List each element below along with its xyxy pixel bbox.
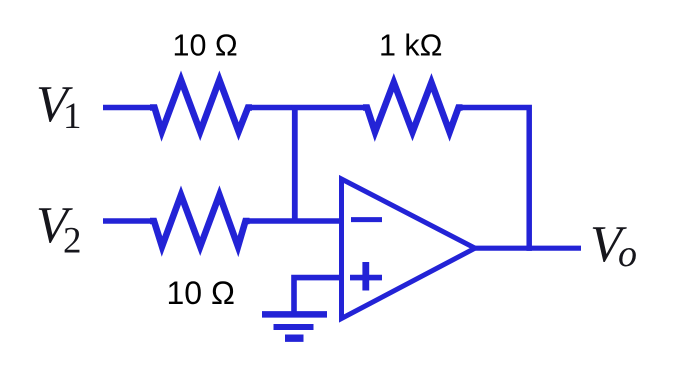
ground bar 3 [285,335,304,342]
resistor R1 10 ohm zigzag [150,80,252,132]
svg-text:o: o [618,233,637,275]
wire top row V1 to feedback corner [103,80,529,251]
resistor R3 1 kohm zigzag [363,83,463,133]
svg-text:10 Ω: 10 Ω [173,28,238,62]
ground bar 2 [274,324,314,330]
svg-text:1 kΩ: 1 kΩ [379,28,443,62]
wire V2 row to op-amp inverting input [103,195,342,247]
svg-text:1: 1 [63,96,82,137]
op-amp plus input symbol horizontal [350,275,382,281]
svg-text:2: 2 [63,221,82,262]
ground bar 1 [262,311,327,318]
svg-text:10 Ω: 10 Ω [167,275,235,311]
wire output [474,246,581,251]
op-amp minus input symbol [351,217,382,222]
resistor R2 10 ohm zigzag [150,195,250,247]
op-amp plus input symbol vertical [362,262,369,291]
op-amp U1 triangle [342,179,476,319]
wire non-inverting input and ground stem [294,278,342,315]
wire node vertical [292,105,298,221]
